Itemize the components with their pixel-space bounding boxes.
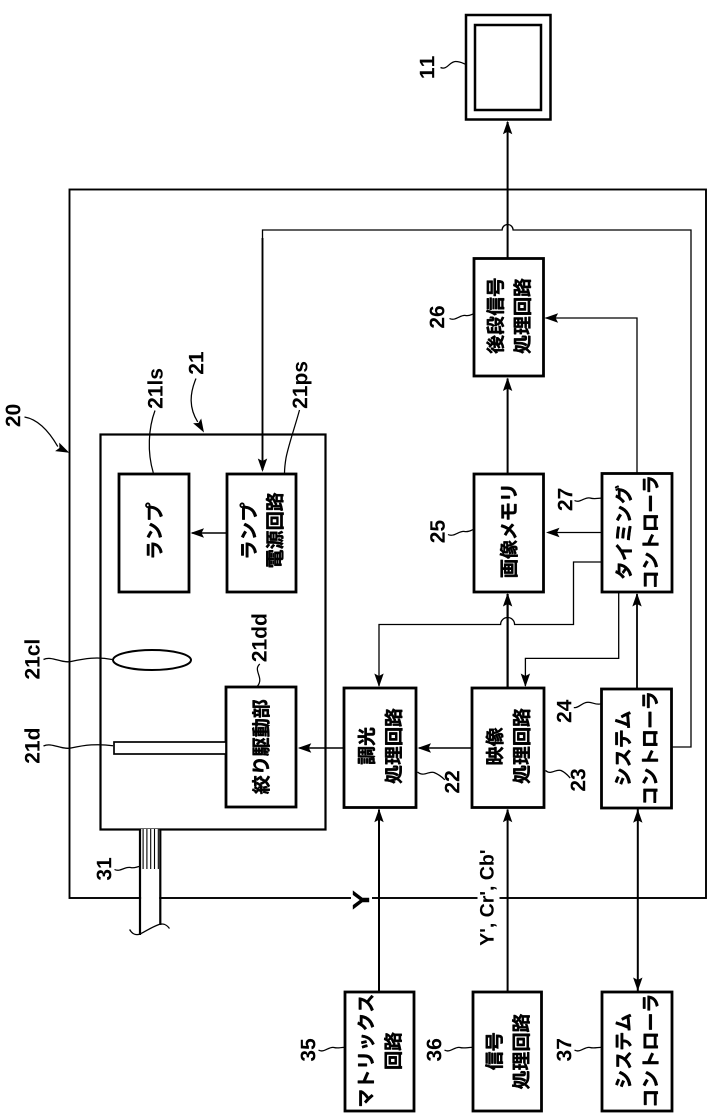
halo behind signal label Y xyxy=(351,887,372,913)
text system controller 37 xyxy=(615,996,658,1105)
arrowhead into box 22 right edge xyxy=(418,743,432,752)
wire: system controller 24 to timing controller 27 xyxy=(636,594,638,689)
signal label Y xyxy=(353,890,369,909)
leader from label 27 to box 27 xyxy=(575,498,602,501)
wire drop into lamp power circuit xyxy=(262,238,264,470)
label 36 xyxy=(427,1039,442,1061)
label 35 xyxy=(301,1039,316,1061)
leader from label 35 to box 35 xyxy=(319,1047,345,1051)
arrowhead into lamp power circuit top xyxy=(258,459,267,473)
leader from label 11 to monitor xyxy=(441,62,467,69)
arrowhead into lamp box right edge xyxy=(191,528,205,537)
tilde leader from label 21dd to aperture drive box xyxy=(257,664,259,686)
text lamp power supply circuit xyxy=(240,493,284,567)
dimming processing circuit box 22 xyxy=(344,688,416,808)
label 21d xyxy=(24,729,39,763)
wire: timing controller 27 to video processing circuit 23 xyxy=(525,592,618,686)
label 22 xyxy=(445,771,460,793)
wire: signal processing 36 up to video processing 23 (Y',Cr',Cb') xyxy=(507,810,509,993)
cable 31 torn end wavy line xyxy=(130,924,170,935)
label 11 xyxy=(420,56,434,77)
signal label Y', Cr', Cb' xyxy=(479,851,496,946)
leader from label 20 with arrow to box 20 edge xyxy=(25,417,58,447)
text aperture drive unit xyxy=(252,700,270,794)
text signal processing circuit xyxy=(485,1014,530,1089)
label 31 xyxy=(97,858,112,880)
text video processing circuit xyxy=(486,709,531,784)
leader from label 26 to box 26 xyxy=(450,314,475,319)
label 24 xyxy=(557,700,572,723)
text matrix circuit xyxy=(358,995,402,1106)
label 25 xyxy=(430,521,445,543)
cable 31 hatch lines xyxy=(142,829,144,869)
cable 31 ribbon white fill xyxy=(141,829,159,926)
arrowhead into box 27 bottom xyxy=(632,593,641,607)
label 21 xyxy=(189,352,204,374)
arrowhead into box 24 bottom xyxy=(633,809,642,823)
wire: video processing 23 to dimming circuit 22 xyxy=(419,747,472,749)
text system controller 24 xyxy=(615,693,658,802)
text dimming processing circuit xyxy=(358,709,403,784)
monitor 11 outer frame xyxy=(466,15,551,120)
arrowhead into box 26 bottom xyxy=(503,378,512,392)
label 21cl xyxy=(24,640,39,679)
leader from label 21cl to lens ellipse xyxy=(44,658,113,662)
leader from label 21ls to lamp box xyxy=(149,411,155,473)
arrowhead into aperture drive right edge xyxy=(298,743,312,752)
leader from label 21d to aperture blade xyxy=(44,745,114,749)
arrowhead into box 23 top xyxy=(521,674,530,688)
leader from label 21ps to lamp power box xyxy=(285,410,300,473)
leader from label 37 to box 37 xyxy=(575,1047,602,1051)
arrowhead into box 25 bottom xyxy=(503,593,512,607)
wire: system controller 24 to lamp power circuit 21ps (via top) xyxy=(263,225,692,747)
wire: image memory 25 to post-stage signal processing 26 xyxy=(507,379,509,475)
wire: dimming circuit 22 to aperture drive 21dd xyxy=(300,747,345,749)
wire: post-stage signal processing 26 to monitor 11 xyxy=(507,122,509,259)
text timing controller xyxy=(615,477,658,586)
arrowhead into box 37 top xyxy=(633,978,642,992)
text lamp (ranpu) xyxy=(145,503,162,558)
leader from label 21 with arrow to box 21 edge xyxy=(191,379,198,422)
arrowhead into box 26 right edge xyxy=(545,313,559,322)
cable 31 left edge xyxy=(139,829,141,935)
label 37 xyxy=(557,1039,572,1061)
wire: timing controller 27 to image memory 25 xyxy=(548,532,602,534)
system controller box 24 xyxy=(602,689,672,808)
label 21ps xyxy=(293,362,312,408)
projector unit outer box 20 xyxy=(70,190,707,899)
leader from label 25 to box 25 xyxy=(448,529,474,535)
post-stage signal processing circuit box 26 xyxy=(474,259,544,377)
leader from box 24 to label 24 xyxy=(574,702,601,707)
signal processing circuit box 36 xyxy=(473,992,542,1111)
wire: matrix circuit 35 up to dimming circuit 22 (signal Y) xyxy=(378,810,380,993)
arrowhead into monitor bottom xyxy=(503,121,512,135)
matrix circuit box 35 xyxy=(345,992,414,1111)
label 20 xyxy=(6,405,21,427)
halo behind signal label Y', Cr', Cb' xyxy=(478,850,500,946)
video processing circuit box 23 xyxy=(472,688,544,808)
wire: system controller 37 to system controller 24 (bidirectional) xyxy=(637,809,639,993)
label 26 xyxy=(430,306,445,328)
system controller box 37 xyxy=(602,992,672,1111)
wire: lamp power circuit to lamp xyxy=(192,532,227,534)
timing controller box 27 xyxy=(602,474,672,593)
aperture blade 21d xyxy=(114,742,226,754)
wire: video processing 23 to image memory 25 xyxy=(507,594,509,688)
lamp box 21ls xyxy=(119,474,189,592)
arrowhead into box 22 top xyxy=(374,674,383,688)
condenser lens ellipse 21cl xyxy=(113,650,191,670)
arrowhead into box 22 bottom xyxy=(374,809,383,823)
arrowhead into box 25 right edge xyxy=(546,528,560,537)
leader from box 23 to label 23 xyxy=(546,770,571,778)
label 23 xyxy=(571,769,586,791)
aperture drive box 21dd xyxy=(226,687,296,807)
cable 31 right edge xyxy=(159,829,161,925)
image memory box 25 xyxy=(474,474,544,592)
monitor 11 inner screen xyxy=(475,25,541,110)
text post-stage signal processing circuit xyxy=(486,279,531,354)
arrowhead into box 23 bottom xyxy=(503,809,512,823)
leader from box 22 to label 22 xyxy=(418,772,445,780)
text image memory xyxy=(500,487,518,577)
leader from label 36 to box 36 xyxy=(445,1047,473,1051)
label 21ls xyxy=(147,369,162,408)
label 27 xyxy=(558,489,573,511)
wire: timing controller 27 to dimming circuit 22 (hop over video bus) xyxy=(379,562,602,686)
optical unit box 21 xyxy=(101,435,326,830)
label 21dd xyxy=(251,615,266,662)
leader from label 31 to cable xyxy=(115,867,140,871)
wire: timing controller 27 to post-stage signal processing 26 xyxy=(546,318,638,474)
lamp power circuit box 21ps xyxy=(227,474,296,592)
